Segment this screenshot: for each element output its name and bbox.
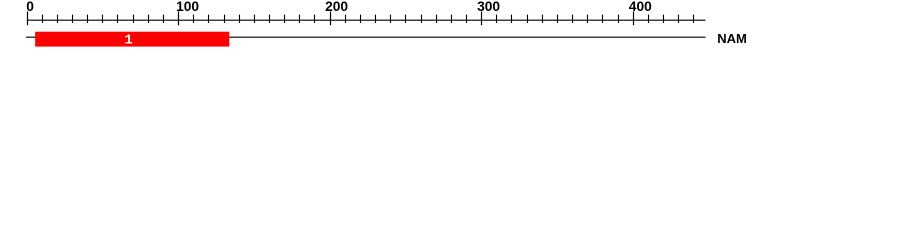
svg-text:NAM: NAM: [717, 31, 747, 46]
svg-text:0: 0: [26, 0, 34, 14]
major tick 300: [481, 12, 483, 26]
major tick 0: [27, 12, 29, 26]
major tick 200: [330, 12, 332, 26]
svg-text:200: 200: [325, 0, 348, 14]
svg-text:300: 300: [477, 0, 500, 14]
svg-text:100: 100: [176, 0, 199, 14]
svg-text:400: 400: [629, 0, 652, 14]
major tick 400: [633, 12, 635, 26]
ruler baseline: [27, 19, 706, 21]
background: [0, 0, 900, 58]
sequence line: [26, 36, 706, 38]
major tick 100: [178, 12, 180, 26]
minor ticks every 10 units: [43, 15, 694, 23]
svg-text:1: 1: [124, 34, 132, 49]
feature bar 1 (red): [35, 32, 229, 47]
